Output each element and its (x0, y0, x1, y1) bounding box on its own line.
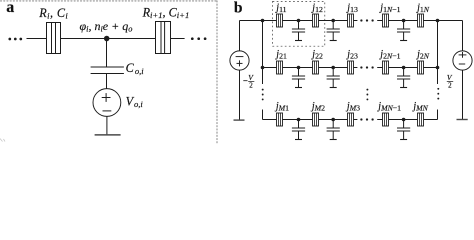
junction j2N (418, 61, 424, 74)
dotted figure top border (1, 0, 218, 2)
svg-text:j11: j11 (274, 2, 286, 14)
node row1 at x=298.5 (297, 19, 301, 23)
row 1 wire right segment (377, 20, 462, 22)
svg-text:2: 2 (249, 81, 253, 89)
voltage source +V/2 (453, 51, 472, 70)
junction j21 (277, 61, 283, 74)
node mid-right column (436, 66, 440, 70)
svg-text:Ri+1, Ci+1: Ri+1, Ci+1 (142, 5, 190, 20)
svg-text:Ri, Ci: Ri, Ci (38, 6, 68, 21)
junction j2N-1 (383, 61, 389, 74)
svg-text:b: b (234, 0, 243, 17)
left rail ground (234, 119, 245, 121)
shunt capacitor row2 x298.5 (292, 68, 305, 88)
shunt capacitor row1 x298.5 (292, 21, 305, 41)
svg-text:j21: j21 (274, 49, 287, 61)
svg-text:2: 2 (448, 81, 452, 89)
right array column (437, 21, 439, 85)
svg-text:j2N: j2N (415, 49, 430, 61)
node row3 at x=403.6 (402, 118, 406, 122)
row 2 wire left segment (263, 67, 358, 69)
right ellipsis dots (191, 37, 194, 40)
svg-text:a: a (6, 0, 14, 16)
node top-left column (261, 19, 265, 23)
row 1 cdots (360, 19, 362, 21)
wire (106, 74, 108, 89)
junction j1N-1 (383, 14, 389, 27)
node row1 at x=403.6 (402, 19, 406, 23)
junction j1N (418, 14, 424, 27)
node row3 at x=298.5 (297, 118, 301, 122)
dashed unit-cell box (273, 1, 325, 46)
wire (61, 38, 156, 40)
node dot (104, 36, 110, 42)
right column vdots (437, 88, 439, 90)
capacitor C_o,i (91, 67, 124, 74)
svg-text:φi, nie + qo: φi, nie + qo (80, 19, 133, 34)
svg-text:jMN−1: jMN−1 (376, 101, 401, 113)
svg-text:jM3: jM3 (345, 101, 360, 113)
right rail ground (457, 119, 468, 121)
shunt capacitor row1 x333.2 (327, 21, 340, 41)
junction j13 (348, 14, 354, 27)
svg-text:j12: j12 (310, 2, 323, 14)
row 3 wire left segment (263, 119, 358, 121)
left electrode rail (239, 21, 241, 51)
junction j11 (277, 14, 283, 27)
svg-text:Co,i: Co,i (126, 61, 145, 76)
right electrode rail (462, 21, 464, 51)
node row2 at x=403.6 (402, 66, 406, 70)
middle column vdots (366, 89, 368, 91)
left ellipsis dots (8, 38, 11, 41)
svg-text:j22: j22 (310, 49, 323, 61)
node row2 at x=333.2 (331, 66, 335, 70)
row 1 wire left segment (240, 20, 358, 22)
node row1 at x=333.2 (331, 19, 335, 23)
shunt capacitor row3 x403.6 (397, 120, 410, 140)
label -V/2 (243, 73, 254, 89)
label V/2 (447, 73, 453, 89)
ground (95, 134, 121, 136)
row 2 cdots (360, 66, 362, 68)
svg-text:jM2: jM2 (310, 101, 325, 113)
node mid-left column (261, 66, 265, 70)
dotted panel divider (216, 1, 218, 144)
row 2 wire right segment (377, 67, 437, 69)
svg-text:jM1: jM1 (274, 101, 289, 113)
junction jM3 (348, 113, 354, 126)
voltage source -V/2 (230, 51, 249, 70)
wire (171, 38, 185, 40)
shunt capacitor row3 x333.2 (327, 120, 340, 140)
junction jMN (418, 113, 424, 126)
junction jMN-1 (383, 113, 389, 126)
svg-text:j1N: j1N (415, 2, 430, 14)
svg-text:j1N−1: j1N−1 (378, 2, 400, 14)
shunt capacitor row1 x403.6 (397, 21, 410, 41)
left column vdots (262, 89, 264, 91)
svg-text:j13: j13 (345, 2, 358, 14)
wire (106, 116, 108, 134)
svg-text:Vo,i: Vo,i (126, 94, 144, 109)
node row3 at x=333.2 (331, 118, 335, 122)
shunt capacitor row2 x403.6 (397, 68, 410, 88)
node top-right column (436, 19, 440, 23)
wire (27, 38, 47, 40)
junction jM2 (313, 113, 319, 126)
svg-text:jMN: jMN (411, 101, 428, 113)
shunt capacitor row2 x333.2 (327, 68, 340, 88)
row 3 wire right segment (377, 119, 437, 121)
node row2 at x=298.5 (297, 66, 301, 70)
wire down from node (106, 39, 108, 68)
left array column (262, 21, 264, 85)
row 3 cdots (360, 118, 362, 120)
voltage source V_o,i (93, 89, 121, 117)
tunnel junction R_i+1,C_i+1 (156, 22, 171, 54)
svg-text:j23: j23 (345, 49, 358, 61)
stray corner mark (0, 139, 5, 142)
svg-text:j2N−1: j2N−1 (378, 49, 400, 61)
junction j23 (348, 61, 354, 74)
shunt capacitor row3 x298.5 (292, 120, 305, 140)
junction jM1 (277, 113, 283, 126)
junction j22 (313, 61, 319, 74)
junction j12 (313, 14, 319, 27)
tunnel junction R_i,C_i (47, 23, 61, 54)
